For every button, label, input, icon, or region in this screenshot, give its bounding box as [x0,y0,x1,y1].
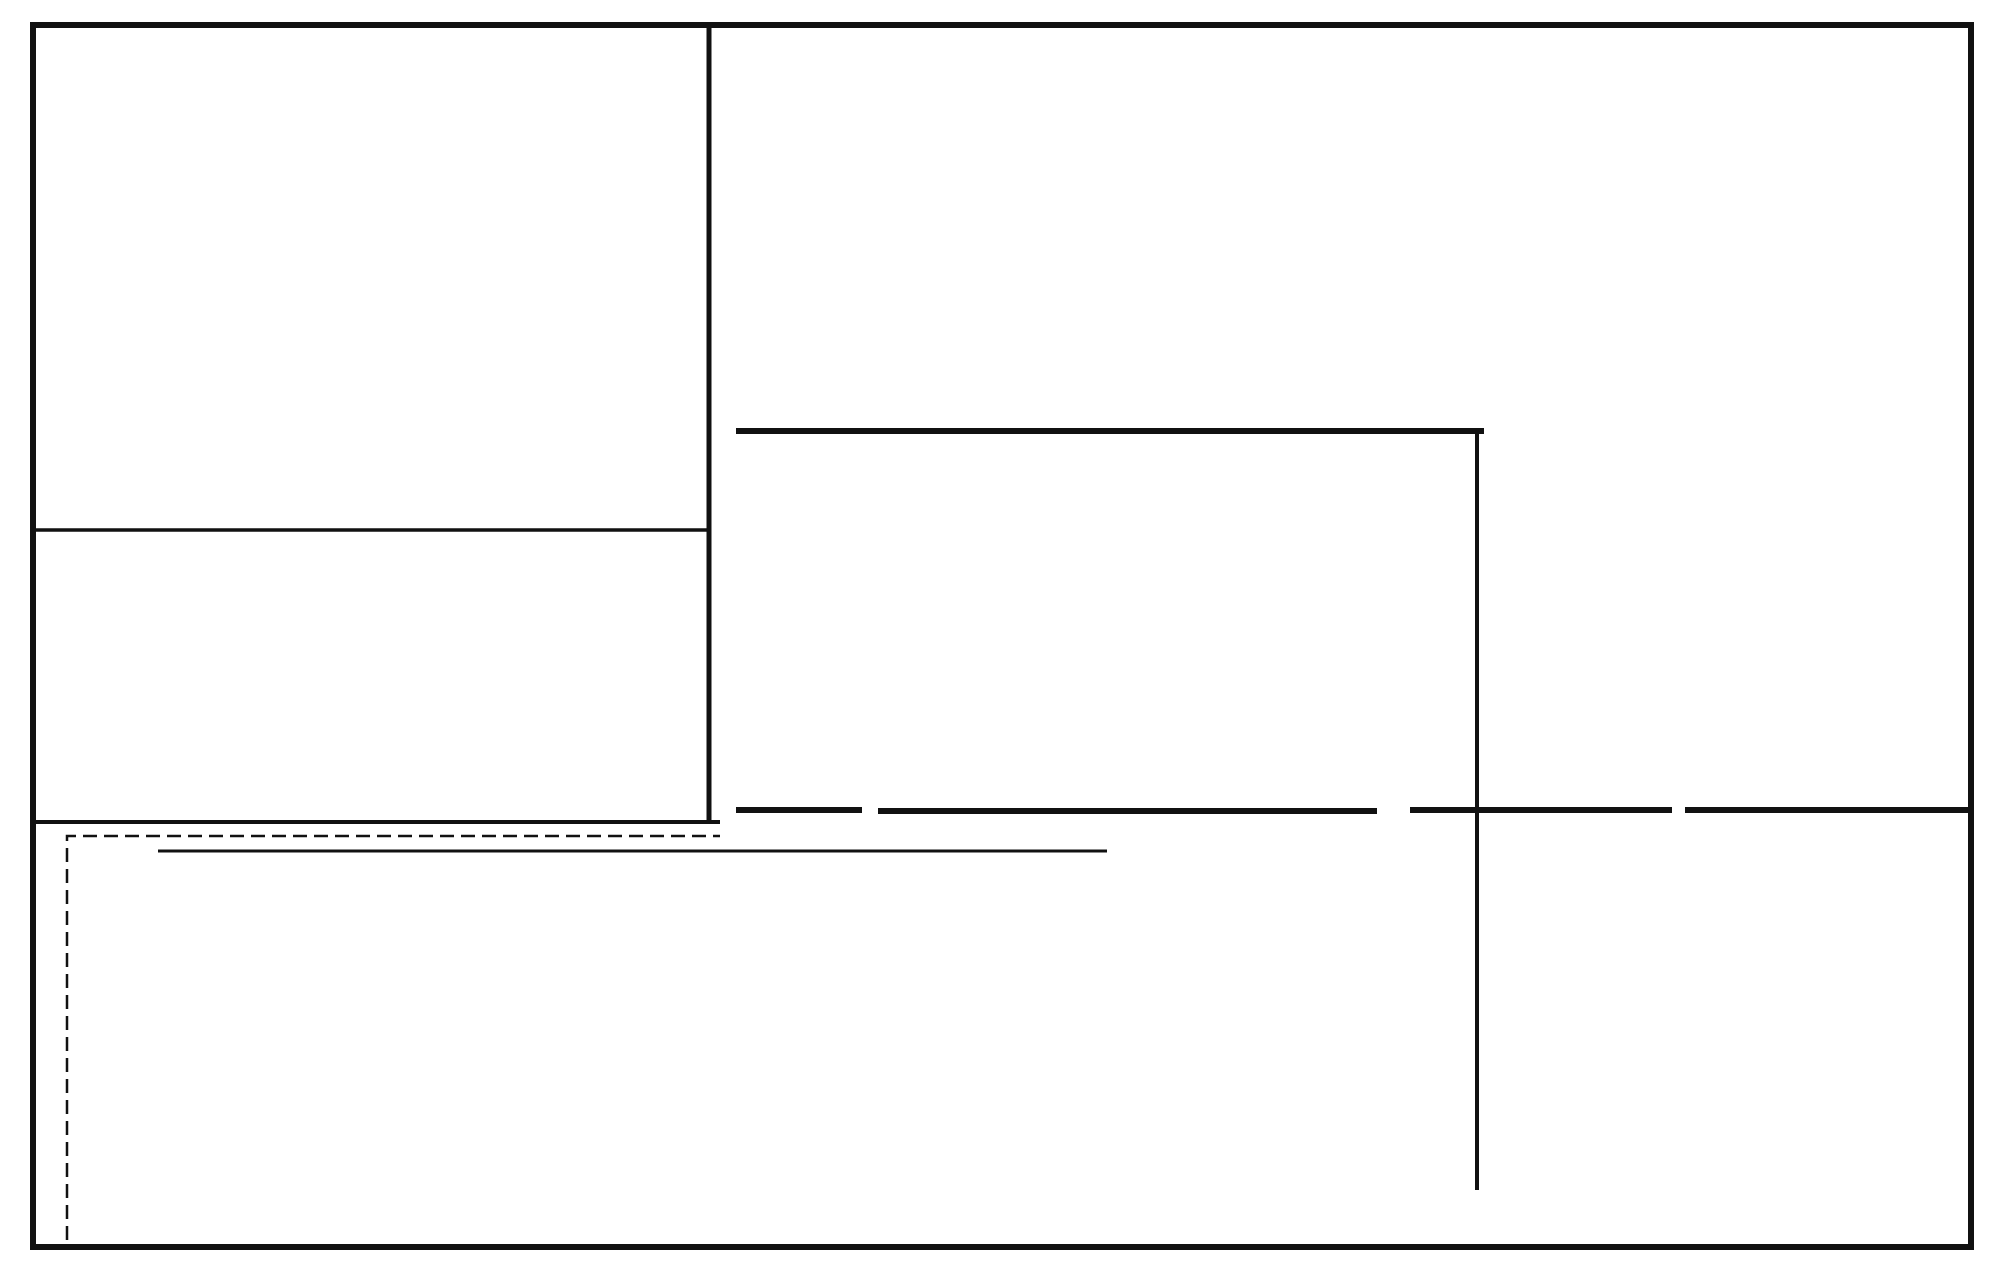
wire: hor section inner box top [158,850,1107,853]
wire: vert right vertical [1475,431,1479,1190]
wire: notes divider [33,528,709,532]
wire: vert-hor divider mid [878,808,1377,814]
wire: vert-hor divider left [736,807,862,813]
wire: top-left box right edge [707,25,712,822]
wire: notes box bottom [33,820,720,824]
wire: vert-hor divider right [1410,807,1672,813]
wire: video-vert divider [736,428,1484,434]
wire: vert-hor divider right2 [1685,807,1971,813]
wire: bottom dashed pcb box [67,836,720,1240]
